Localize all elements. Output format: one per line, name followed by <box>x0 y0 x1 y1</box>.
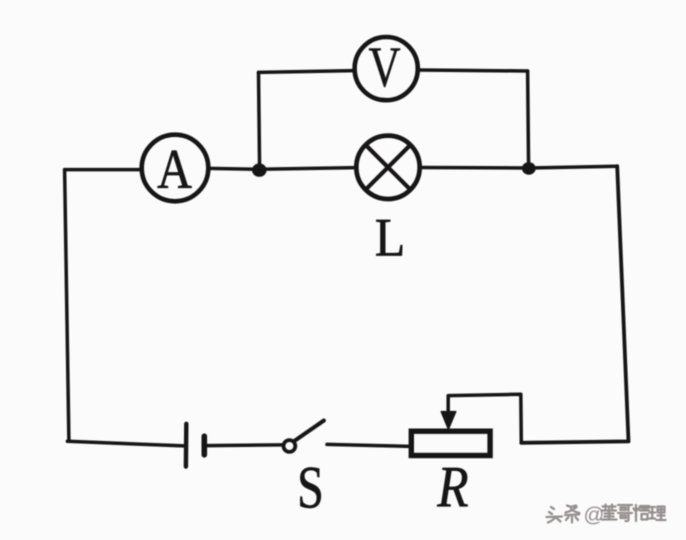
wire node B to top right corner <box>529 166 618 168</box>
wire voltmeter branch top left <box>259 71 355 73</box>
watermark 头条 @董哥悟理 <box>547 505 666 523</box>
ammeter U1 circle <box>142 135 209 202</box>
wire right vertical side down to bottom corner then left to wiper join <box>521 166 628 443</box>
svg-text:R: R <box>436 454 468 519</box>
wire bottom left (to battery) <box>67 441 183 446</box>
wire node A to lamp <box>260 168 357 170</box>
wire voltmeter branch top right <box>418 70 528 71</box>
battery short plate (-) <box>202 436 208 455</box>
wire voltmeter branch right vertical (down to node B) <box>528 71 529 168</box>
watermark glyph 董 <box>602 505 617 520</box>
rheostat wiper arrowhead <box>441 412 456 430</box>
switch S pivot ring <box>284 440 296 452</box>
watermark glyph 理 <box>650 507 666 521</box>
node B junction dot <box>522 162 536 175</box>
wire lamp to node B <box>420 166 529 170</box>
wire wiper arm up-over-down to right side <box>448 394 521 443</box>
svg-text:A: A <box>157 139 192 201</box>
wire switch to rheostat <box>327 444 410 446</box>
wire voltmeter branch left vertical (node A up) <box>259 72 260 169</box>
watermark glyph 头 <box>547 507 563 523</box>
wire left vertical side <box>65 170 69 442</box>
svg-text:S: S <box>297 454 324 520</box>
wire top left (corner to ammeter) <box>65 168 142 172</box>
lamp L circle <box>356 136 419 199</box>
rheostat R body <box>411 431 490 455</box>
node A junction dot <box>252 163 267 176</box>
svg-text:L: L <box>375 209 405 268</box>
lamp L cross <box>366 145 411 190</box>
battery long plate (+) <box>184 424 189 467</box>
watermark glyph 条 <box>565 506 580 523</box>
watermark glyph 哥 <box>618 505 632 521</box>
svg-text:V: V <box>368 36 400 100</box>
watermark glyph 悟 <box>634 505 650 521</box>
voltmeter U2 circle <box>355 37 418 100</box>
switch S lever <box>294 421 324 441</box>
svg-text:@: @ <box>584 504 605 527</box>
wire battery to switch <box>207 443 283 447</box>
wire ammeter to node A <box>208 167 256 171</box>
